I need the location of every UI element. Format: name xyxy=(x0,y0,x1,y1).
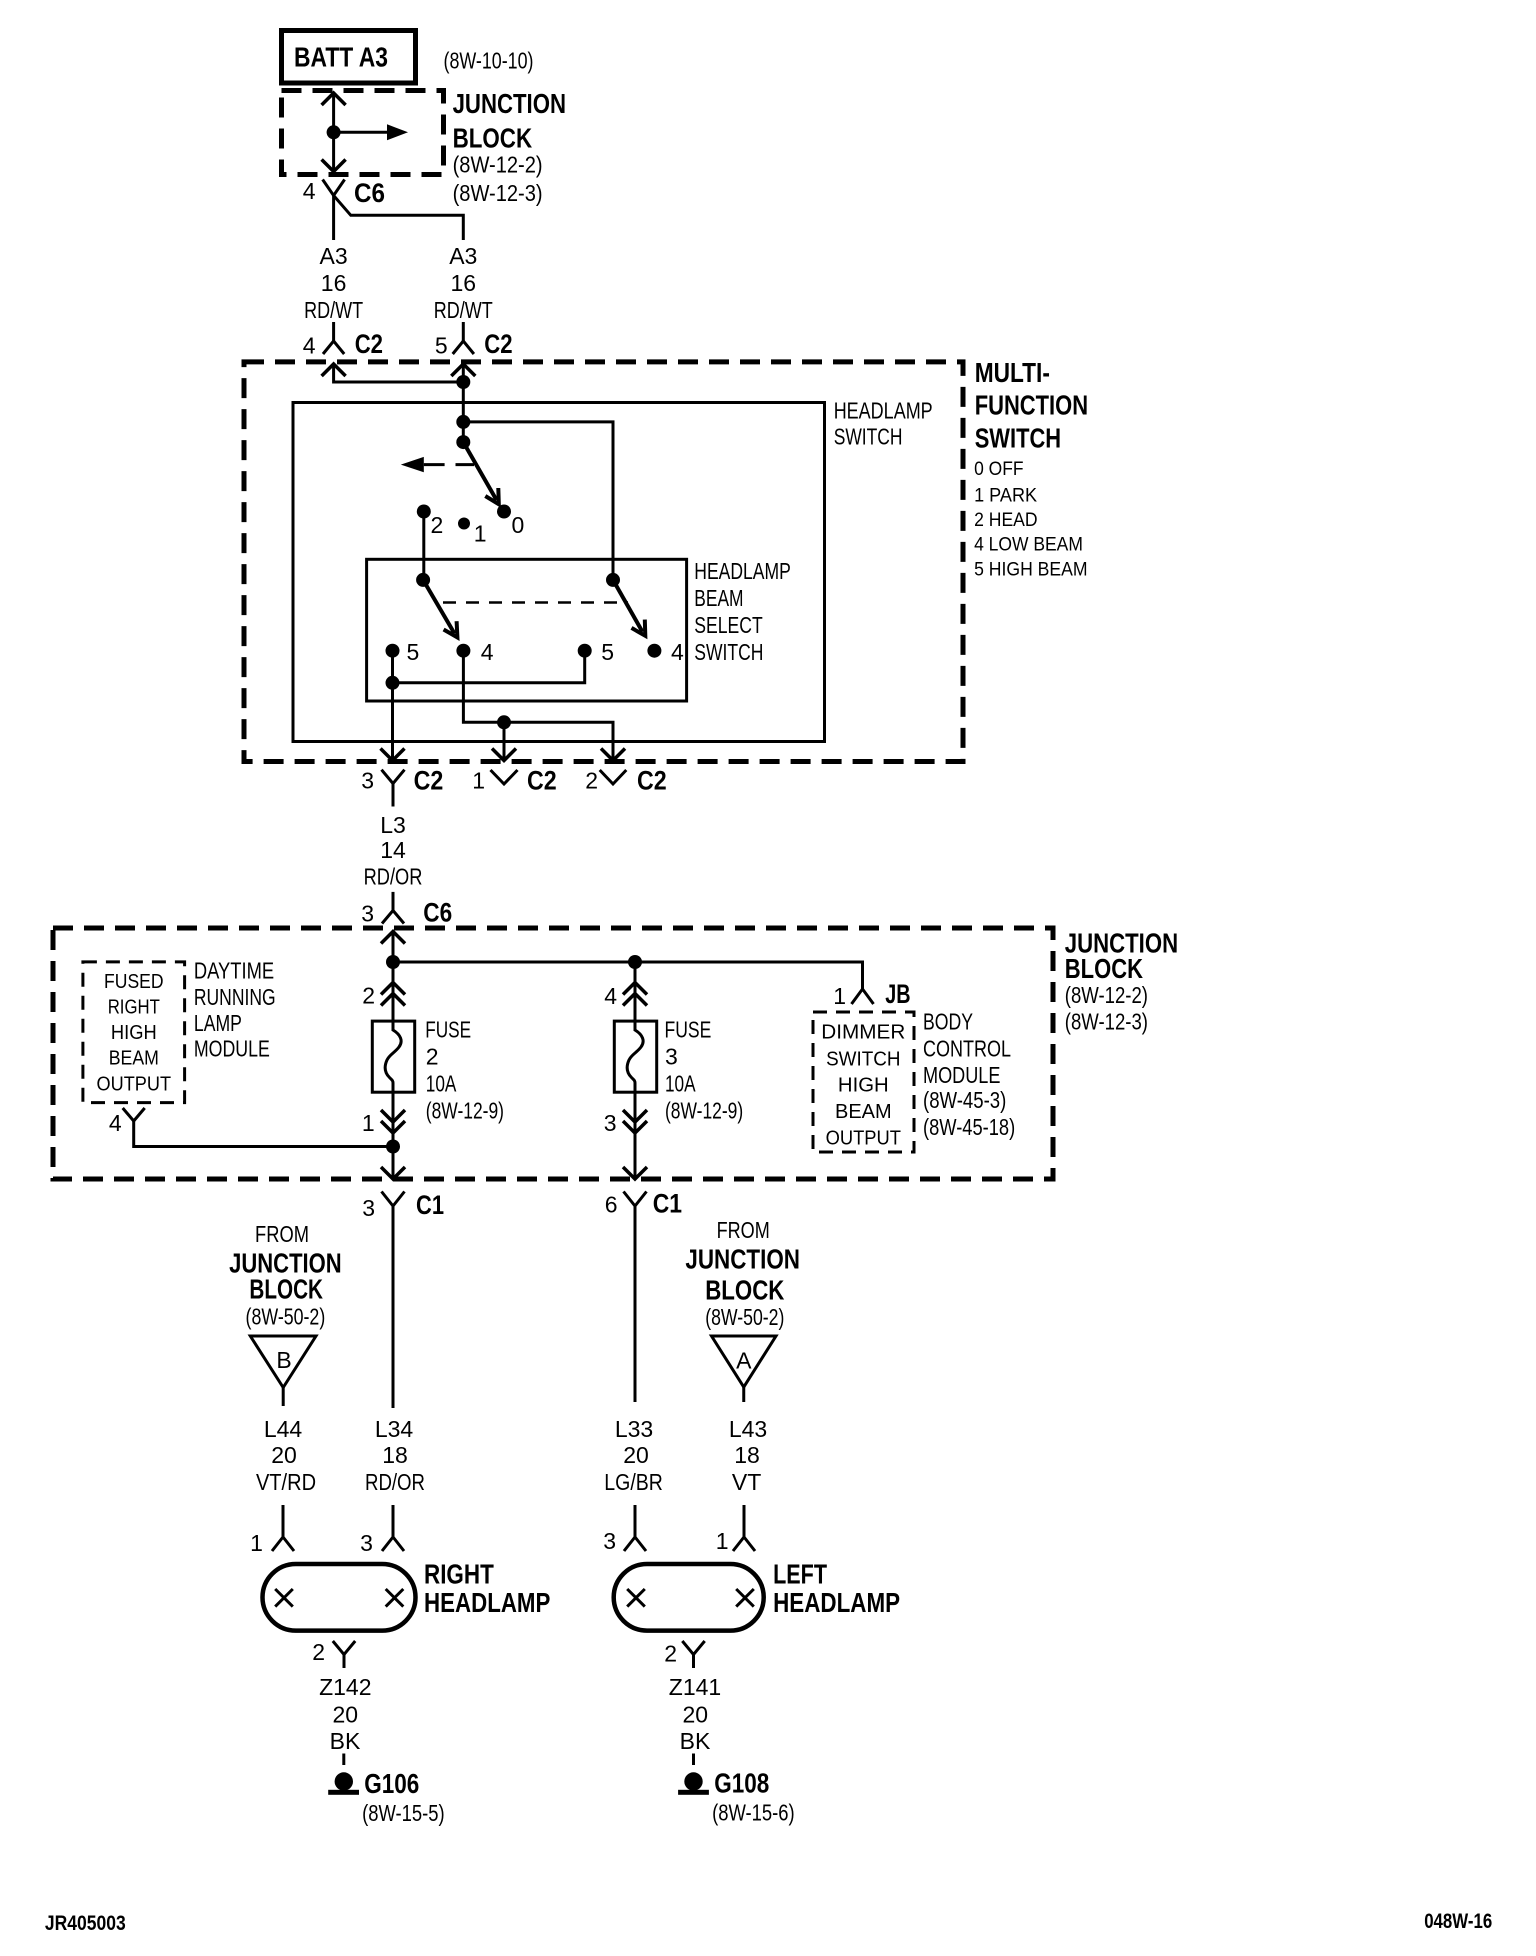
svg-text:RD/WT: RD/WT xyxy=(304,297,363,323)
svg-text:0 OFF: 0 OFF xyxy=(974,459,1023,480)
svg-text:DIMMER: DIMMER xyxy=(821,1021,905,1044)
svg-text:FUSE: FUSE xyxy=(425,1017,471,1043)
svg-text:2: 2 xyxy=(431,512,444,538)
svg-text:SWITCH: SWITCH xyxy=(975,422,1061,453)
svg-text:Z142: Z142 xyxy=(319,1674,371,1700)
svg-text:(8W-12-3): (8W-12-3) xyxy=(453,180,543,206)
svg-text:3: 3 xyxy=(360,1530,373,1556)
svg-text:4: 4 xyxy=(671,639,684,665)
svg-text:OUTPUT: OUTPUT xyxy=(97,1073,172,1096)
svg-text:BEAM: BEAM xyxy=(694,585,743,611)
svg-text:2: 2 xyxy=(362,983,375,1009)
svg-text:BK: BK xyxy=(680,1728,711,1754)
svg-text:2 HEAD: 2 HEAD xyxy=(974,510,1038,531)
svg-text:HEADLAMP: HEADLAMP xyxy=(834,398,933,424)
svg-text:4: 4 xyxy=(604,983,617,1009)
svg-text:HIGH: HIGH xyxy=(838,1073,889,1096)
svg-text:Z141: Z141 xyxy=(669,1674,721,1700)
svg-text:4: 4 xyxy=(109,1110,122,1136)
svg-text:1: 1 xyxy=(250,1530,263,1556)
svg-text:2: 2 xyxy=(426,1044,439,1070)
svg-text:FUNCTION: FUNCTION xyxy=(975,389,1088,420)
svg-text:4: 4 xyxy=(303,178,316,204)
svg-text:FROM: FROM xyxy=(255,1221,309,1247)
svg-text:4: 4 xyxy=(481,639,494,665)
svg-text:20: 20 xyxy=(623,1442,649,1468)
svg-text:(8W-12-9): (8W-12-9) xyxy=(665,1098,743,1124)
svg-text:SWITCH: SWITCH xyxy=(834,424,903,450)
svg-text:RD/OR: RD/OR xyxy=(364,864,423,890)
svg-text:1: 1 xyxy=(833,983,846,1009)
svg-text:BLOCK: BLOCK xyxy=(1065,953,1143,984)
svg-text:C6: C6 xyxy=(423,898,452,928)
svg-text:C2: C2 xyxy=(414,766,444,796)
svg-text:C2: C2 xyxy=(484,329,512,359)
svg-text:B: B xyxy=(276,1347,291,1373)
svg-text:JUNCTION: JUNCTION xyxy=(685,1243,800,1274)
svg-text:C6: C6 xyxy=(354,178,385,208)
svg-text:(8W-50-2): (8W-50-2) xyxy=(705,1304,784,1330)
svg-text:JUNCTION: JUNCTION xyxy=(453,88,566,119)
svg-text:G108: G108 xyxy=(714,1768,769,1799)
svg-text:L3: L3 xyxy=(380,812,406,838)
svg-text:3: 3 xyxy=(604,1110,617,1136)
svg-text:20: 20 xyxy=(271,1442,297,1468)
svg-text:(8W-12-2): (8W-12-2) xyxy=(453,152,543,178)
svg-text:BK: BK xyxy=(330,1728,361,1754)
svg-text:L44: L44 xyxy=(264,1416,303,1442)
svg-text:JB: JB xyxy=(885,979,910,1009)
svg-text:2: 2 xyxy=(312,1639,325,1665)
svg-text:C2: C2 xyxy=(637,766,667,796)
svg-text:1: 1 xyxy=(474,521,487,547)
svg-text:3: 3 xyxy=(362,1195,375,1221)
svg-text:2: 2 xyxy=(664,1641,677,1667)
svg-text:JR405003: JR405003 xyxy=(45,1912,126,1935)
svg-text:(8W-45-18): (8W-45-18) xyxy=(923,1114,1015,1140)
svg-text:CONTROL: CONTROL xyxy=(923,1035,1011,1061)
svg-text:5: 5 xyxy=(407,639,420,665)
svg-text:BEAM: BEAM xyxy=(109,1047,159,1070)
svg-text:HEADLAMP: HEADLAMP xyxy=(424,1587,550,1618)
svg-text:RD/OR: RD/OR xyxy=(365,1469,425,1495)
svg-text:16: 16 xyxy=(451,270,477,296)
svg-text:C1: C1 xyxy=(416,1190,444,1220)
svg-text:LEFT: LEFT xyxy=(773,1559,827,1590)
svg-text:FUSED: FUSED xyxy=(104,970,164,993)
svg-text:BATT A3: BATT A3 xyxy=(294,42,388,73)
svg-text:FUSE: FUSE xyxy=(665,1017,712,1043)
svg-text:A: A xyxy=(736,1347,752,1373)
svg-text:18: 18 xyxy=(382,1442,408,1468)
svg-text:18: 18 xyxy=(734,1442,760,1468)
svg-text:G106: G106 xyxy=(364,1768,419,1799)
svg-text:(8W-50-2): (8W-50-2) xyxy=(246,1304,326,1330)
svg-text:MODULE: MODULE xyxy=(923,1062,1000,1088)
svg-text:FROM: FROM xyxy=(717,1217,770,1243)
svg-text:10A: 10A xyxy=(426,1071,457,1097)
svg-text:RD/WT: RD/WT xyxy=(434,297,493,323)
svg-text:20: 20 xyxy=(683,1702,709,1728)
svg-text:MULTI-: MULTI- xyxy=(975,357,1050,388)
svg-text:L43: L43 xyxy=(729,1416,767,1442)
svg-text:MODULE: MODULE xyxy=(194,1036,270,1062)
svg-text:SWITCH: SWITCH xyxy=(694,639,763,665)
svg-text:L33: L33 xyxy=(615,1416,653,1442)
svg-text:C2: C2 xyxy=(355,329,383,359)
svg-text:LG/BR: LG/BR xyxy=(604,1469,663,1495)
svg-text:(8W-12-9): (8W-12-9) xyxy=(426,1098,504,1124)
svg-text:BODY: BODY xyxy=(923,1009,973,1035)
svg-text:RIGHT: RIGHT xyxy=(108,996,161,1019)
svg-text:1: 1 xyxy=(472,768,485,794)
svg-text:SWITCH: SWITCH xyxy=(826,1047,900,1070)
svg-text:4 LOW BEAM: 4 LOW BEAM xyxy=(974,535,1083,556)
svg-text:VT/RD: VT/RD xyxy=(256,1469,316,1495)
svg-text:BLOCK: BLOCK xyxy=(705,1275,784,1306)
svg-text:(8W-45-3): (8W-45-3) xyxy=(923,1087,1006,1113)
svg-text:10A: 10A xyxy=(665,1071,696,1097)
svg-text:C1: C1 xyxy=(653,1189,682,1219)
svg-text:3: 3 xyxy=(603,1528,616,1554)
svg-text:C2: C2 xyxy=(527,766,557,796)
svg-text:VT: VT xyxy=(732,1469,761,1495)
svg-text:2: 2 xyxy=(585,768,598,794)
svg-text:(8W-15-6): (8W-15-6) xyxy=(712,1800,795,1826)
svg-text:5: 5 xyxy=(435,333,448,359)
svg-text:0: 0 xyxy=(512,512,525,538)
svg-text:A3: A3 xyxy=(449,243,477,269)
svg-text:BLOCK: BLOCK xyxy=(249,1273,323,1304)
svg-text:SELECT: SELECT xyxy=(694,612,762,638)
svg-text:3: 3 xyxy=(665,1044,678,1070)
svg-text:4: 4 xyxy=(303,333,316,359)
svg-text:LAMP: LAMP xyxy=(194,1010,242,1036)
svg-text:HEADLAMP: HEADLAMP xyxy=(694,558,791,584)
svg-text:BLOCK: BLOCK xyxy=(453,122,532,153)
svg-text:HIGH: HIGH xyxy=(111,1021,157,1044)
svg-text:20: 20 xyxy=(333,1702,359,1728)
svg-text:(8W-10-10): (8W-10-10) xyxy=(444,48,534,74)
svg-text:HEADLAMP: HEADLAMP xyxy=(773,1587,900,1618)
svg-text:5: 5 xyxy=(601,639,614,665)
svg-text:6: 6 xyxy=(605,1192,618,1218)
svg-text:(8W-12-2): (8W-12-2) xyxy=(1065,982,1148,1008)
svg-text:OUTPUT: OUTPUT xyxy=(826,1127,902,1150)
svg-text:BEAM: BEAM xyxy=(835,1100,892,1123)
svg-text:3: 3 xyxy=(361,768,374,794)
svg-text:(8W-12-3): (8W-12-3) xyxy=(1065,1008,1148,1034)
svg-text:5 HIGH BEAM: 5 HIGH BEAM xyxy=(974,559,1088,580)
svg-text:RIGHT: RIGHT xyxy=(424,1559,494,1590)
svg-text:16: 16 xyxy=(321,270,347,296)
svg-text:14: 14 xyxy=(380,837,406,863)
svg-text:RUNNING: RUNNING xyxy=(194,984,276,1010)
svg-text:1 PARK: 1 PARK xyxy=(974,485,1037,506)
svg-text:048W-16: 048W-16 xyxy=(1424,1910,1492,1933)
svg-text:L34: L34 xyxy=(375,1416,414,1442)
svg-text:1: 1 xyxy=(362,1110,375,1136)
svg-text:3: 3 xyxy=(361,901,374,927)
svg-text:A3: A3 xyxy=(320,243,348,269)
svg-text:1: 1 xyxy=(716,1528,729,1554)
svg-text:DAYTIME: DAYTIME xyxy=(194,958,274,984)
svg-text:(8W-15-5): (8W-15-5) xyxy=(362,1800,445,1826)
